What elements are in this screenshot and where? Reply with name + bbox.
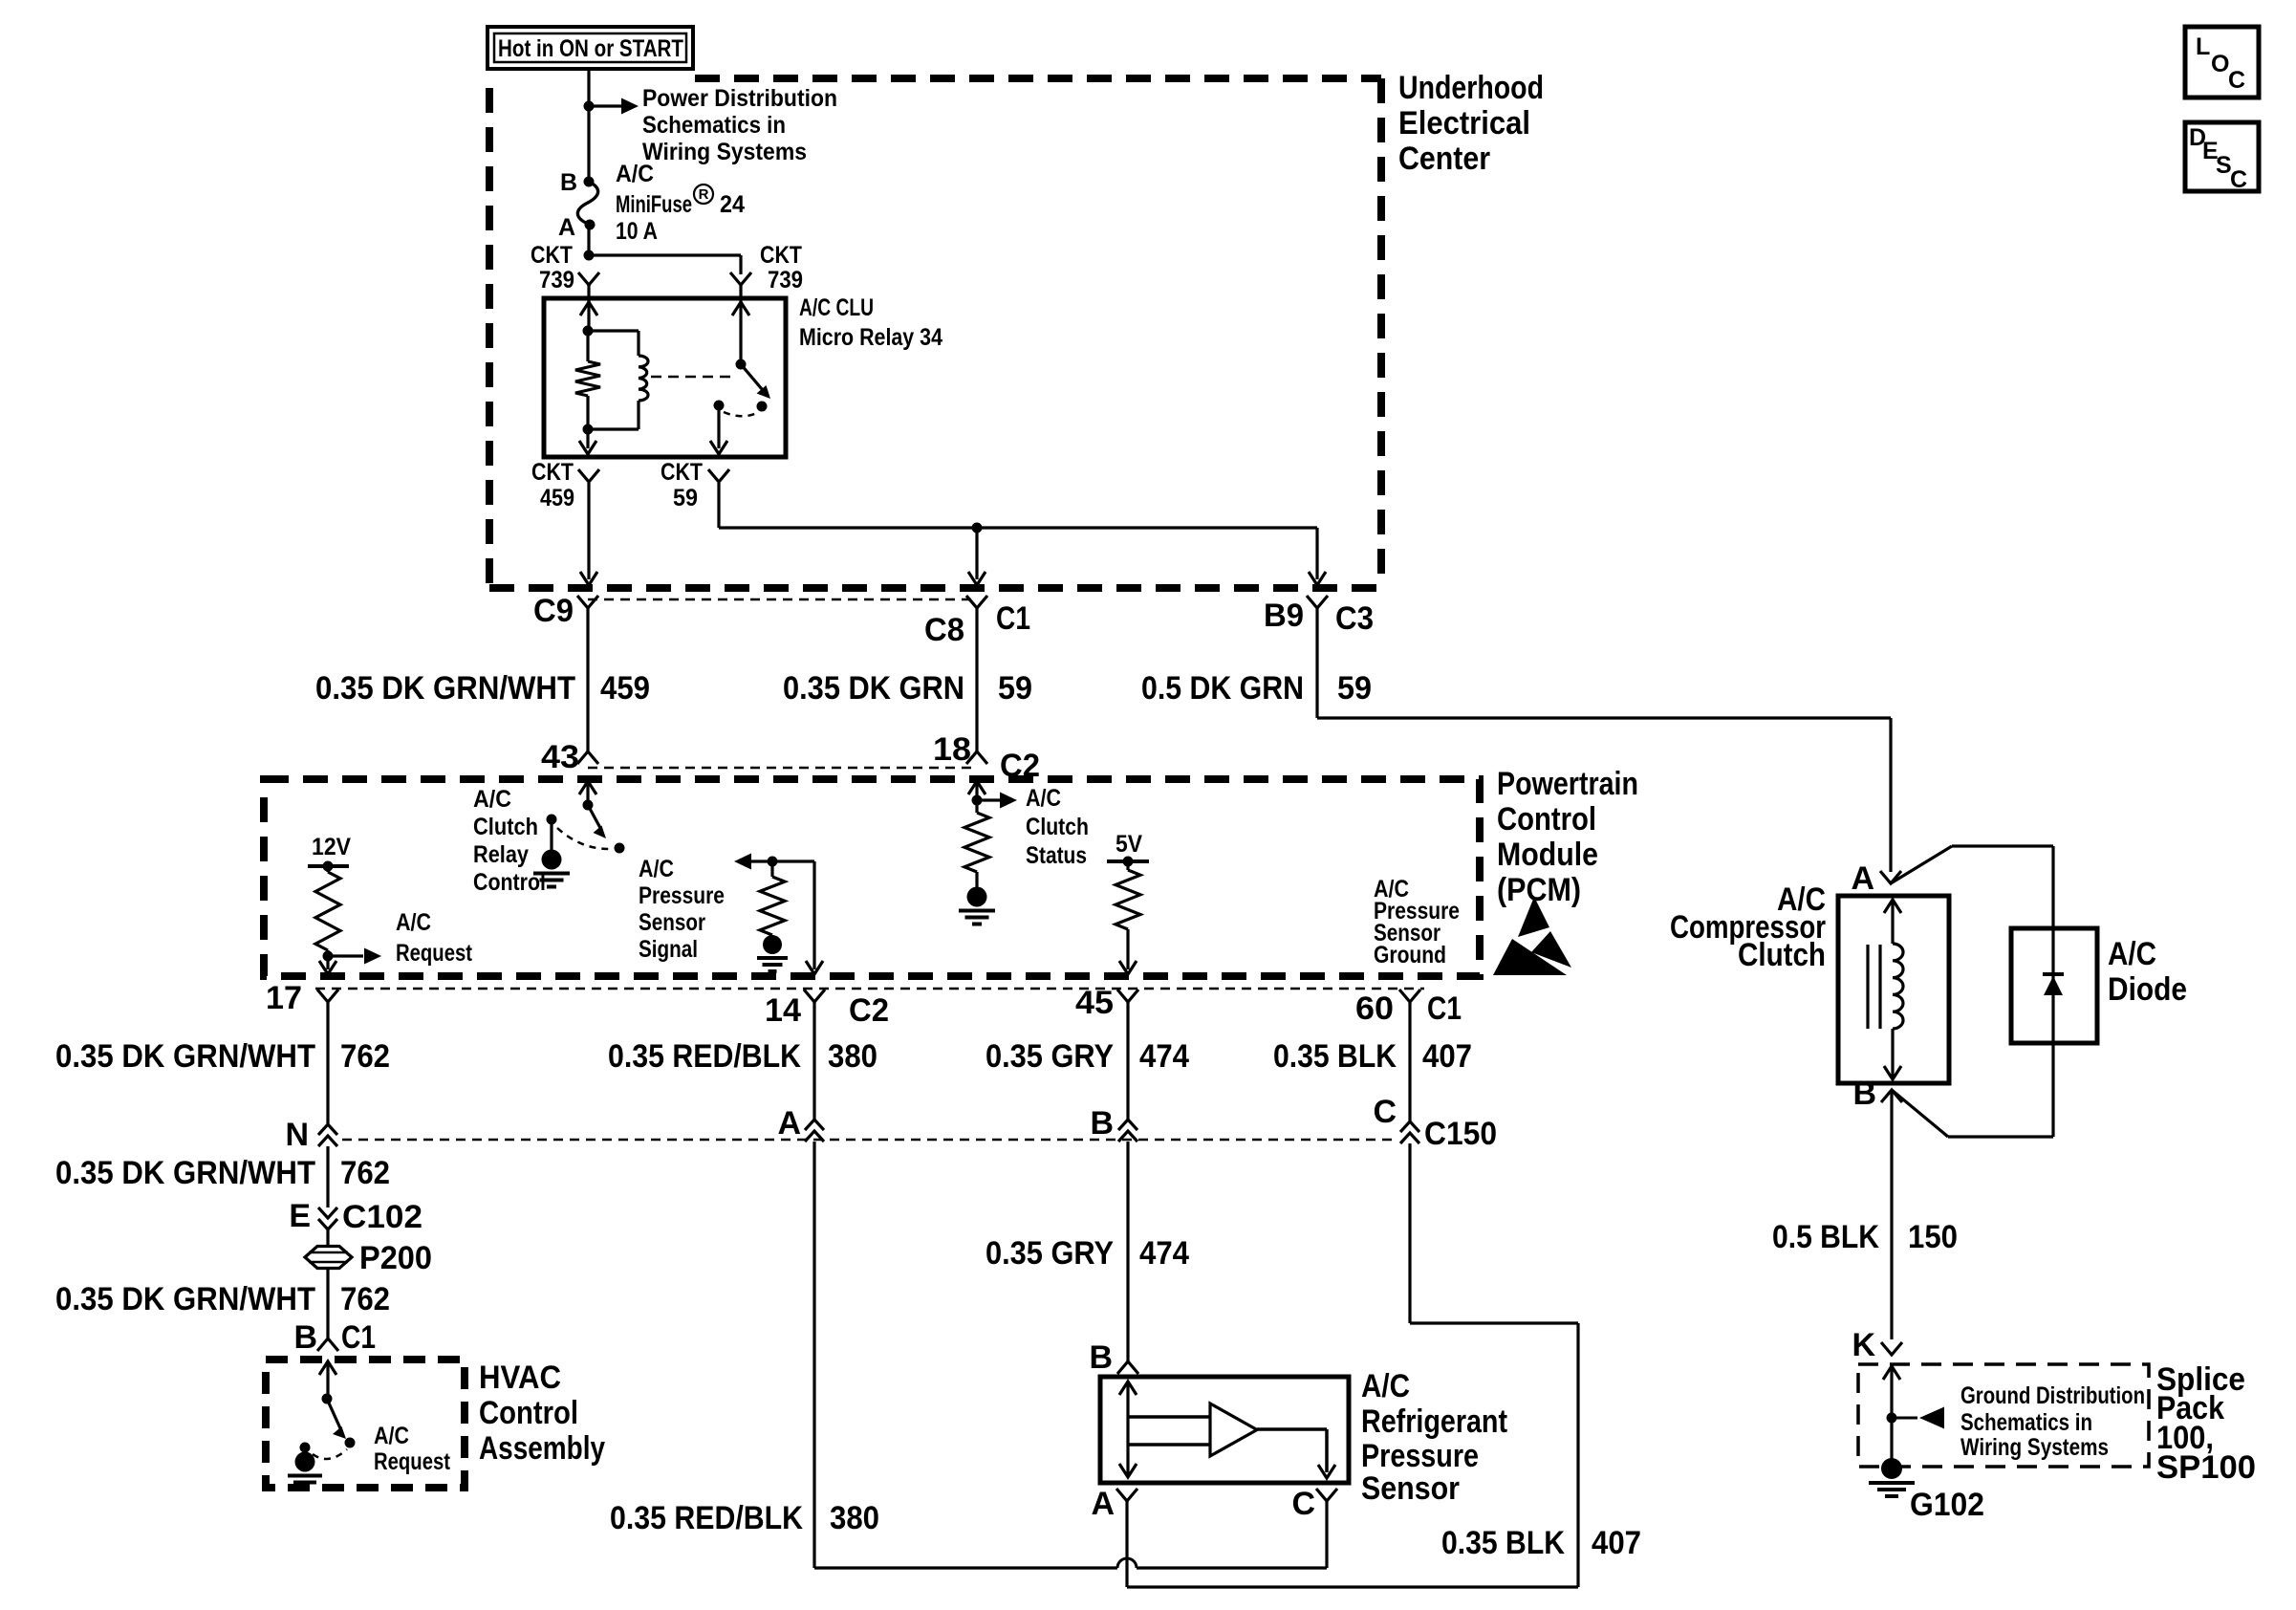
svg-text:C: C [2228,67,2245,94]
svg-text:P200: P200 [359,1240,432,1276]
connector row dashed line C9-C8 [588,598,977,601]
pin label B9 [1264,598,1304,634]
svg-text:CKT: CKT [531,459,574,486]
wire hop over pin A lead [1117,1558,1137,1568]
svg-text:380: 380 [828,1038,877,1075]
svg-text:CKT: CKT [661,459,703,486]
pin label C1 (bottom) [1427,990,1462,1027]
net label 0.35 DK GRN/WHT 459 [315,670,650,707]
pin label C8 [924,612,964,648]
arrow into splice pack [1883,1366,1900,1380]
svg-text:407: 407 [1422,1038,1472,1075]
ground stem (relay control) [550,819,552,853]
connector fork sensor pin A [1116,1489,1137,1501]
svg-text:L: L [2196,33,2210,60]
ground G102 ball [1869,1458,1915,1496]
HVAC A/C request switch arm [327,1399,346,1439]
junction dot CKT59 bus at C1 branch [972,523,983,533]
svg-text:A/C: A/C [616,161,654,187]
relay coil bottom junction dot [583,424,594,435]
label A/C Compressor Clutch [1670,881,1826,973]
svg-text:5V: 5V [1116,831,1142,858]
net label 0.35 BLK 407 (lower) [1441,1525,1641,1561]
svg-text:N: N [285,1117,309,1153]
label Underhood Electrical Center [1398,70,1544,177]
net label 0.5 BLK 150 [1772,1219,1958,1255]
wire 380 C150 A down-left loop [814,1142,1117,1568]
wire 407 ground loop bottom [1127,1143,1578,1587]
svg-text:SP100: SP100 [2156,1449,2256,1486]
svg-text:0.35 DK GRN/WHT: 0.35 DK GRN/WHT [55,1281,315,1317]
net label 0.35 GRY 474 (lower) [986,1235,1189,1272]
wire compressor coil to B [1884,1029,1901,1079]
svg-text:Wiring Systems: Wiring Systems [642,139,807,165]
svg-text:O: O [2211,51,2229,77]
label 12V [312,834,351,860]
label A/C MiniFuse 24 10 A [616,161,745,245]
chassis ground (relay control) [533,850,570,887]
svg-text:B: B [293,1319,317,1356]
resistor (A/C request pull-up) [315,866,340,950]
wire 474 C150 B to sensor B [1126,1142,1129,1361]
connector fork CKT 59 [708,469,729,482]
svg-text:CKT: CKT [760,242,802,269]
net label CKT 739 (left) [531,242,574,294]
pin label 18 [933,731,971,768]
HVAC control assembly dashed box [266,1360,465,1488]
svg-text:A/C: A/C [1361,1368,1410,1404]
op-amp U1 triangle [1210,1403,1257,1456]
wire sensor pin A lead down [1125,1501,1128,1587]
PCM pin row dashed line [315,988,1424,990]
connector fork CKT739 left [578,272,599,285]
svg-text:17: 17 [266,980,302,1016]
wire pin18 to clutch status [975,781,978,800]
wire splice internal [1890,1366,1893,1465]
svg-text:Micro Relay 34: Micro Relay 34 [799,324,942,351]
svg-text:Sensor: Sensor [639,909,705,936]
svg-text:Clutch: Clutch [1026,814,1089,840]
svg-text:B: B [1089,1339,1113,1376]
svg-text:Control: Control [479,1395,578,1431]
arrow into compressor A [1884,900,1901,913]
HVAC switch pivot dot [322,1394,333,1404]
wire pressure signal to pin 14 [772,861,823,974]
svg-text:0.35 RED/BLK: 0.35 RED/BLK [608,1038,801,1075]
svg-text:C150: C150 [1424,1116,1497,1152]
relay internal dashed link coil-to-switch [651,376,732,379]
relay switch contact dot (thrown) [757,402,768,412]
relay control contact dot (ground) [547,815,557,825]
connector row dashed line 43-18 [588,767,977,770]
label Splice Pack 100 SP100 [2156,1361,2256,1486]
wire diode loop bottom [1892,1043,2053,1137]
svg-text:0.5 DK GRN: 0.5 DK GRN [1141,670,1304,707]
label G102 [1910,1487,1984,1523]
svg-text:459: 459 [540,485,574,511]
pin label 45 [1075,985,1114,1021]
svg-text:(PCM): (PCM) [1497,872,1581,908]
pin label B (compressor) [1852,1076,1876,1112]
label A/C Clutch Status [1026,785,1089,869]
connector fork pin 17 [317,990,338,1002]
pin label A (C150) [777,1105,801,1142]
wire 59 C3 to compressor bus [1317,608,1891,872]
relay control switch pivot dot [583,800,594,811]
resistor (5V pressure ref) [1116,861,1140,929]
label Power Distribution Schematics in Wiring Systems [642,85,837,165]
svg-text:C1: C1 [996,600,1030,637]
svg-text:43: 43 [541,739,579,775]
relay A/C CLU Micro Relay 34 box [544,298,786,457]
ESD sensitivity symbol [1493,897,1571,975]
wire HVAC switch feed [326,1361,329,1399]
svg-text:0.35 DK GRN: 0.35 DK GRN [783,670,964,707]
label Ground Distribution Schematics in Wiring Systems [1960,1382,2145,1461]
dot 12V [323,861,334,872]
arrow to Ground Distribution reference [1892,1407,1944,1429]
svg-text:60: 60 [1355,990,1394,1027]
wire CKT 739 branch to relay right pin [589,255,741,274]
arrow into sensor pin B [1119,1382,1137,1395]
wire diode loop top [1891,846,2053,928]
junction dot on feed wire [584,101,595,112]
junction dot A/C request [323,951,334,962]
svg-text:C1: C1 [341,1319,376,1356]
svg-text:A/C: A/C [639,856,674,882]
net label 0.35 DK GRN/WHT 762 (upper) [55,1038,390,1075]
label A/C Refrigerant Pressure Sensor [1361,1368,1507,1507]
svg-text:Pressure: Pressure [1361,1438,1479,1474]
svg-text:Schematics in: Schematics in [642,112,786,139]
svg-text:A/C: A/C [2108,936,2156,972]
svg-text:CKT: CKT [531,242,573,269]
svg-text:762: 762 [340,1281,390,1317]
svg-text:Request: Request [396,940,473,967]
svg-text:12V: 12V [312,834,351,860]
svg-text:C102: C102 [342,1199,422,1235]
splice pack dashed box [1858,1364,2149,1467]
connector fork pin 43 [577,751,598,764]
svg-text:Powertrain: Powertrain [1497,766,1638,802]
svg-text:Clutch: Clutch [473,814,538,840]
svg-text:Control: Control [1497,801,1596,838]
net label 0.35 DK GRN/WHT 762 (middle) [55,1155,390,1191]
grommet P200 symbol [305,1247,352,1269]
svg-text:C2: C2 [849,992,889,1029]
wire clutch status to ground [975,872,978,888]
wire into relay left pin [587,285,590,331]
pin label C1 (top) [996,600,1030,637]
arrow to A/C Request label [328,948,381,965]
connector fork pin 18 [966,751,987,764]
svg-text:Hot in ON or START: Hot in ON or START [498,35,683,62]
svg-text:150: 150 [1908,1219,1958,1255]
fuse F24 terminal A dot [585,220,596,230]
resistor (clutch status) [964,800,989,872]
label A/C Clutch Relay Control [473,786,546,896]
svg-text:Sensor: Sensor [1361,1470,1460,1507]
label A/C Pressure Sensor Signal [639,856,725,963]
wire branch down to C1 [968,528,986,585]
label Powertrain Control Module (PCM) [1497,766,1638,908]
svg-text:C: C [1291,1486,1315,1522]
connector fork sensor pin C [1316,1489,1337,1501]
junction dot CKT 739 [584,250,595,261]
PCM dashed box [264,779,1480,976]
HVAC switch contact dot (ground) [300,1443,311,1453]
wire 150 compressor B to K [1890,1090,1893,1339]
label A/C CLU Micro Relay 34 [799,294,942,351]
svg-text:474: 474 [1139,1235,1189,1272]
svg-text:Ground: Ground [1374,942,1446,968]
svg-text:380: 380 [830,1500,879,1536]
wire 474 pin45 to C150 B [1126,1002,1129,1120]
svg-text:G102: G102 [1910,1487,1984,1523]
label A/C Request (HVAC) [374,1423,451,1475]
svg-text:45: 45 [1075,985,1114,1021]
svg-text:Relay: Relay [473,841,529,868]
splice junction dot [1887,1413,1897,1424]
label HVAC Control Assembly [479,1360,605,1467]
arrow into HVAC pin B [319,1361,336,1375]
wire branch down to C3 [1309,528,1326,585]
wire CKT 459 down to C9 [580,482,597,585]
sensor internal supply line [1119,1382,1137,1477]
pin label C1 (HVAC) [341,1319,376,1356]
net label CKT 739 (right) [760,242,803,294]
connector fork compressor A [1880,871,1901,883]
svg-text:Power Distribution: Power Distribution [642,85,837,112]
wire from Hot box down to fuse B [587,69,590,182]
wire fuse A to CKT junction [587,225,590,255]
svg-text:Ground Distribution: Ground Distribution [1960,1382,2145,1409]
chassis ground (pressure signal) [757,935,788,971]
pin label C9 [533,593,574,629]
wire into relay right pin [739,285,742,364]
pin label A (fuse) [558,214,575,241]
connector C3 fork [1307,596,1328,608]
junction dot pressure signal [768,857,778,867]
pin label B (C150) [1090,1105,1114,1142]
svg-text:Request: Request [374,1448,451,1475]
wire 380 pin14 to C150 A [812,1002,815,1120]
net label 0.35 RED/BLK 380 (lower) [610,1500,879,1536]
arrow into PCM pin 18 C2 [968,781,986,794]
relay coil top junction dot [583,326,594,337]
wire 59 C1 to pin 18 [975,608,978,751]
relay control dashed travel arc [557,828,612,849]
svg-text:10 A: 10 A [616,218,658,245]
wire 407 pin60 to C150 C [1408,1002,1411,1121]
pin label 60 [1355,990,1394,1027]
svg-text:B9: B9 [1264,598,1304,634]
dot 5V [1123,857,1134,867]
connector C1 fork [966,596,987,608]
pin label 43 [541,739,579,775]
arrow into relay right pin [732,302,749,315]
svg-text:B: B [1090,1105,1114,1142]
sensor internal stub upper [1128,1415,1210,1419]
relay control contact dot (open) [615,843,625,854]
svg-text:K: K [1852,1327,1875,1363]
chassis ground (clutch status) [959,887,995,925]
svg-text:A/C CLU: A/C CLU [799,294,874,321]
svg-text:59: 59 [1337,670,1372,707]
svg-text:Clutch: Clutch [1738,937,1826,973]
wire resistor to ground ball [770,935,773,937]
op-amp output wire [1257,1429,1335,1478]
svg-text:0.35 RED/BLK: 0.35 RED/BLK [610,1500,803,1536]
svg-text:Pressure: Pressure [639,882,725,909]
connector fork CKT739 right [730,272,751,285]
svg-text:A/C: A/C [473,786,511,813]
svg-text:Status: Status [1026,842,1087,869]
HVAC switch contact dot (thrown) [345,1438,356,1448]
connector fork K [1881,1342,1902,1355]
svg-text:A: A [777,1105,801,1142]
pin label C (C150) [1373,1094,1397,1130]
svg-text:C9: C9 [533,593,574,629]
wire relay left pin out [579,429,596,454]
wire resistor to junction [326,950,329,956]
C150 row dashed line [342,1139,1397,1142]
svg-text:762: 762 [340,1155,390,1191]
net label 0.5 DK GRN 59 [1141,670,1372,707]
svg-text:Module: Module [1497,837,1598,873]
fuse F24 terminal B dot [584,177,595,187]
connector fork pin 14 [804,990,825,1002]
wire pin 17 exit [319,956,336,974]
net label CKT 59 [661,459,703,511]
resistor (pressure signal) [760,861,785,935]
arrow to A/C Pressure Sensor Signal (left) [734,854,772,870]
svg-text:B: B [560,169,577,196]
svg-text:739: 739 [768,267,803,294]
svg-text:Wiring Systems: Wiring Systems [1960,1434,2109,1461]
svg-text:A: A [1851,860,1874,897]
HVAC switch dashed travel arc [313,1449,347,1459]
svg-text:0.35 GRY: 0.35 GRY [986,1235,1114,1272]
DESC reference box [2185,122,2259,193]
pin label B (sensor) [1089,1339,1113,1376]
svg-text:Schematics in: Schematics in [1960,1409,2092,1436]
compressor clutch plates [1868,945,1880,1029]
pin label C3 [1335,600,1374,637]
svg-text:59: 59 [998,670,1032,707]
fuse A/C MiniFuse 24 (S-curve symbol) [577,182,597,225]
svg-text:18: 18 [933,731,971,768]
compressor coil winding [1893,900,1903,1029]
pin label C2 (top) [1000,748,1040,784]
svg-text:C: C [1373,1094,1397,1130]
relay switch pivot dot [736,359,747,370]
wire relay output pin [710,405,727,454]
pin label 17 [266,980,302,1016]
relay coil resistor [575,331,600,429]
connector C150 B chevrons [1118,1120,1137,1142]
pin label 14 [765,992,801,1029]
svg-text:407: 407 [1592,1525,1641,1561]
svg-text:0.35 BLK: 0.35 BLK [1441,1525,1565,1561]
svg-text:A/C: A/C [374,1423,409,1449]
pin label A (compressor) [1851,860,1874,897]
net label 0.35 GRY 474 (upper) [986,1038,1189,1075]
wire 762 pin17 to N [326,1002,329,1124]
svg-text:Signal: Signal [639,936,698,963]
net label CKT 459 [531,459,574,511]
pin label E [289,1198,311,1234]
svg-text:Diode: Diode [2108,971,2187,1008]
clutch status junction dot [972,795,983,806]
connector fork B C1 (HVAC) [317,1338,338,1351]
connector fork pin 60 [1399,990,1420,1002]
ground stem (HVAC) [303,1447,306,1454]
sensor A/C Refrigerant Pressure Sensor box [1100,1377,1349,1483]
svg-text:762: 762 [340,1038,390,1075]
diode D1 symbol [2043,974,2064,995]
label 5V [1116,831,1142,858]
node Hot in ON or START (double-border box) [487,27,693,69]
label A/C Request (PCM) [396,909,473,967]
svg-text:59: 59 [673,485,698,511]
pin label C2 (bottom) [849,992,889,1029]
arrow into PCM pin 43 [579,781,596,794]
connector label C102 [342,1199,422,1235]
svg-text:E: E [289,1198,311,1234]
arrow into relay left pin [580,302,597,315]
svg-text:0.35 DK GRN/WHT: 0.35 DK GRN/WHT [55,1155,315,1191]
net label 0.35 DK GRN 59 [783,670,1032,707]
relay control switch arm [588,805,606,838]
supply 12V bar [308,864,349,868]
connector N chevrons [318,1124,337,1146]
svg-text:Electrical: Electrical [1398,105,1530,141]
svg-text:0.5 BLK: 0.5 BLK [1772,1219,1879,1255]
svg-text:Center: Center [1398,141,1490,177]
connector fork CKT 459 [578,469,599,482]
net label 0.35 DK GRN/WHT 762 (lower) [55,1281,390,1317]
relay switch travel dashed arc [724,412,757,416]
wire 762 N to E [326,1146,329,1207]
connector fork pin 45 [1117,990,1138,1002]
pin label B (fuse) [560,169,577,196]
wire P200 to B C1 [326,1267,329,1338]
svg-text:14: 14 [765,992,801,1029]
connector C150 C chevrons [1400,1121,1419,1143]
diode lead through box [2051,928,2054,1043]
svg-text:R: R [699,186,709,203]
svg-text:0.35 BLK: 0.35 BLK [1273,1038,1397,1075]
svg-text:C: C [2230,166,2247,193]
wire arrow to Power Distribution reference [589,98,639,115]
relay switch arm [741,364,770,399]
connector fork compressor B [1881,1090,1902,1102]
wire pin 45 exit [1119,929,1137,974]
svg-text:A: A [558,214,575,241]
relay switch contact dot (output) [714,401,725,411]
underhood electrical center dashed box [489,78,1381,588]
sensor internal stub lower [1128,1443,1210,1447]
label A/C Diode [2108,936,2187,1008]
svg-text:A/C: A/C [1026,785,1061,812]
svg-text:Assembly: Assembly [479,1430,605,1467]
connector fork sensor pin B [1117,1361,1138,1374]
net label 0.35 RED/BLK 380 (upper) [608,1038,877,1075]
svg-text:0.35 GRY: 0.35 GRY [986,1038,1114,1075]
wire 380 hop to sensor pin C [1137,1501,1327,1568]
svg-text:B: B [1852,1076,1876,1112]
